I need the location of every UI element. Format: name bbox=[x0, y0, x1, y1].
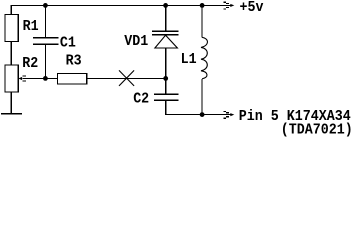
svg-text:R2: R2 bbox=[22, 55, 38, 72]
arrow to Pin 5 terminal bbox=[223, 111, 234, 118]
wire R2 bottom to ground bbox=[10, 92, 12, 114]
arrow to +5v terminal bbox=[223, 2, 234, 9]
capacitor C2 bbox=[154, 94, 178, 100]
svg-text:R1: R1 bbox=[23, 18, 39, 35]
wire L1 branch from +5v rail bbox=[201, 5, 203, 37]
wire top +5v rail bbox=[11, 5, 230, 14]
wire node to C2 bbox=[165, 78, 167, 94]
inductor L1 bbox=[201, 37, 207, 79]
node junction VD1/C2/wire bbox=[163, 76, 168, 81]
svg-text:C2: C2 bbox=[133, 91, 149, 108]
svg-text:VD1: VD1 bbox=[124, 33, 148, 50]
svg-text:R3: R3 bbox=[66, 53, 82, 70]
node junction wiper/C1 bbox=[43, 76, 48, 81]
resistor R1 bbox=[5, 14, 18, 41]
ground bbox=[1, 113, 22, 115]
wire C1 branch from +5v rail bbox=[44, 5, 46, 37]
node junction L1/output rail bbox=[200, 112, 205, 117]
resistor R2 (variable) bbox=[5, 65, 18, 92]
resistor R3 bbox=[57, 73, 86, 84]
svg-text:L1: L1 bbox=[181, 51, 197, 68]
node junction L1-top on +5v rail bbox=[200, 3, 205, 8]
node junction VD1-top on +5v rail bbox=[163, 3, 168, 8]
svg-text:(TDA7021): (TDA7021) bbox=[281, 122, 353, 138]
connector X (antenna tap) bbox=[119, 70, 134, 86]
varicap diode VD1 bbox=[152, 31, 179, 48]
svg-text:+5v: +5v bbox=[240, 0, 264, 16]
node junction C1-top on +5v rail bbox=[43, 3, 48, 8]
svg-text:C1: C1 bbox=[60, 35, 76, 52]
wire R1 to R2 bbox=[10, 42, 12, 66]
wire VD1 branch from +5v rail bbox=[165, 5, 167, 31]
wire C1 bottom to wiper node bbox=[44, 44, 46, 78]
wire VD1 anode to node bbox=[165, 48, 167, 78]
R2 wiper arrow bbox=[18, 76, 26, 81]
wire R3 to VD1 node bbox=[87, 77, 166, 79]
wire wiper to R3 bbox=[23, 77, 58, 79]
capacitor C1 bbox=[33, 38, 59, 45]
wire C2 bottom to output rail bbox=[166, 100, 231, 114]
wire L1 bottom to output rail bbox=[201, 79, 203, 115]
